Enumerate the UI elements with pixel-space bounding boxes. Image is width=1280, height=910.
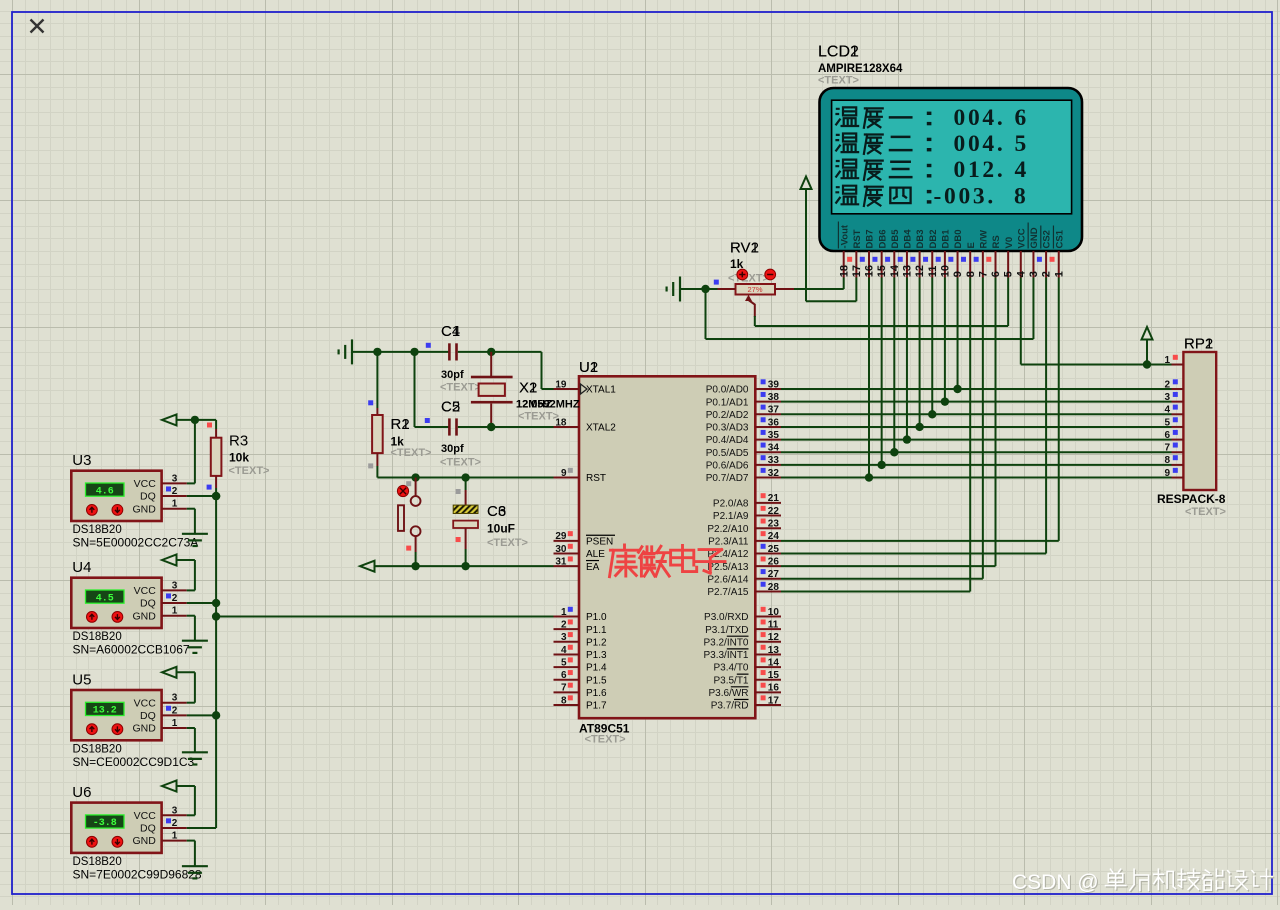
svg-text:1: 1 [561, 607, 567, 618]
capacitor C3/C6 10uF [453, 478, 478, 567]
svg-text:10k: 10k [229, 451, 249, 465]
U3 pin 2 DQ [140, 486, 187, 503]
RV1 wiper arrow [745, 295, 755, 317]
U1 pin 25 P2.4/A12 [707, 544, 781, 560]
svg-text:P0.3/AD3: P0.3/AD3 [706, 423, 749, 434]
svg-text:2: 2 [1164, 379, 1170, 390]
wire U5 GND to ground [187, 728, 195, 752]
svg-text:DB3: DB3 [915, 229, 926, 248]
svg-text:11: 11 [768, 619, 779, 630]
svg-text:37: 37 [768, 405, 780, 416]
svg-text:35: 35 [768, 430, 780, 441]
wire U6 VCC [176, 786, 195, 815]
svg-text:R2: R2 [391, 416, 410, 433]
U1 pin 16 P3.6/WR [708, 683, 781, 699]
U1 pin 38 P0.1/AD1 [706, 392, 781, 408]
CSDN watermark [1012, 869, 1274, 895]
svg-text:3: 3 [172, 693, 178, 704]
svg-text:P1.7: P1.7 [586, 701, 607, 712]
LCD pin label VCC [1016, 228, 1027, 248]
svg-text:7: 7 [977, 271, 989, 277]
svg-text:15: 15 [768, 670, 780, 681]
wire 1-wire bus [212, 492, 220, 828]
svg-text:AMPIRE128X64: AMPIRE128X64 [818, 63, 903, 75]
LCD screen text line1 [836, 105, 1026, 131]
RP1 pin 9 [1164, 468, 1183, 479]
svg-text:5: 5 [1003, 271, 1015, 277]
resistor R3 10k [211, 420, 222, 496]
svg-text:8: 8 [1014, 183, 1026, 209]
LCD pin 2 stub [1037, 251, 1053, 278]
svg-text:RS: RS [991, 235, 1002, 248]
svg-text:5: 5 [1015, 131, 1027, 157]
svg-text:P1.1: P1.1 [586, 625, 607, 636]
U3 up button [87, 505, 98, 516]
U1 XTAL1 clock symbol [581, 384, 588, 394]
U1 pin 6 P1.5 [554, 670, 608, 686]
U6 pin 2 DQ [140, 818, 187, 835]
svg-text:U2: U2 [579, 359, 598, 376]
svg-text:24: 24 [768, 531, 780, 542]
svg-text:13: 13 [768, 645, 780, 656]
svg-text:DB4: DB4 [903, 229, 914, 249]
wire U3 GND to ground [187, 509, 195, 534]
power arrow at RP1 [1142, 327, 1153, 340]
svg-text:X2: X2 [519, 380, 537, 397]
svg-text:-003.: -003. [934, 183, 996, 209]
wire LCD DB5 to P0.5 [890, 278, 898, 457]
wire LCD DB1 to P0.1 [941, 278, 949, 406]
svg-text:18: 18 [838, 265, 850, 277]
LCD pin 13 stub [898, 251, 914, 278]
U1 pin 19 XTAL1 [554, 379, 617, 395]
wire C4 to crystal top / XTAL1 [458, 348, 554, 389]
wire LCD RS to P2.5 [781, 278, 996, 567]
state square button bottom [406, 546, 411, 551]
U4 pin 2 DQ [140, 593, 187, 610]
wire LCD E to P2.7 [781, 278, 970, 592]
wire LCD GND net [706, 278, 1034, 340]
svg-text:<TEXT>: <TEXT> [440, 382, 481, 394]
wire P0.5 row [781, 451, 1172, 453]
RV1 increment button [737, 269, 748, 280]
svg-text:26: 26 [768, 556, 780, 567]
svg-text:2: 2 [172, 705, 178, 716]
state square R3 bottom [207, 485, 212, 490]
wire U3 VCC power rail [176, 416, 216, 484]
svg-text:GND: GND [132, 503, 156, 515]
LCD pin label E [966, 242, 977, 248]
svg-text:3: 3 [172, 473, 178, 484]
svg-text:SN=CE0002CC9D1C3: SN=CE0002CC9D1C3 [73, 755, 195, 769]
svg-text:VCC: VCC [134, 697, 157, 709]
U1 pin 2 P1.1 [554, 619, 608, 635]
wire U6 GND to ground [187, 841, 195, 867]
wire P0.2 row [781, 413, 1172, 415]
LCD pin 10 stub [936, 251, 952, 278]
ground below U6 [182, 865, 208, 867]
RV1 pot body [736, 284, 776, 295]
U6 pin 1 GND [132, 831, 186, 848]
svg-text:1: 1 [172, 831, 178, 842]
svg-text:6: 6 [990, 271, 1002, 277]
wire ground rail [353, 348, 449, 356]
svg-text:C6: C6 [487, 503, 506, 520]
U1 pin 29 PSEN [554, 531, 616, 547]
U1 pin 15 P3.5/T1 [713, 670, 781, 686]
svg-text:GND: GND [132, 723, 156, 735]
svg-text:3: 3 [1028, 271, 1040, 277]
svg-text:4.5: 4.5 [96, 593, 114, 604]
svg-text:004.: 004. [954, 131, 1006, 157]
svg-text:<TEXT>: <TEXT> [229, 465, 270, 477]
svg-text:U5: U5 [72, 672, 91, 689]
svg-text:RP2: RP2 [1184, 336, 1213, 353]
LCD pin label DB7 [865, 229, 876, 248]
wire LCD CS2 to P2.4 [781, 278, 1046, 554]
U4 pin 3 VCC [134, 580, 187, 597]
svg-text:28: 28 [768, 582, 780, 593]
wire U4 VCC [176, 560, 195, 590]
svg-text:<TEXT>: <TEXT> [585, 734, 626, 746]
RP1 pin 5 [1164, 417, 1183, 428]
U4 pin 1 GND [132, 606, 186, 623]
wire LCD VCC net to RP1 [1021, 278, 1172, 369]
svg-text:XTAL1: XTAL1 [586, 385, 616, 396]
svg-text:34: 34 [768, 443, 780, 454]
svg-text:19: 19 [555, 379, 567, 390]
U1 pin 30 ALE [554, 544, 606, 560]
svg-text:15: 15 [876, 265, 888, 277]
svg-text:GND: GND [132, 835, 156, 847]
svg-text:12: 12 [914, 265, 926, 277]
svg-text:9: 9 [561, 468, 567, 479]
wire LCD DB3 to P0.3 [915, 278, 923, 432]
svg-text:2: 2 [172, 593, 178, 604]
power arrow at LCD RST [801, 177, 812, 302]
LCD pin label DB4 [903, 229, 914, 249]
svg-text:2: 2 [172, 818, 178, 829]
svg-text:P3.2/INT0: P3.2/INT0 [703, 637, 748, 648]
svg-text:012.: 012. [954, 157, 1006, 183]
svg-text:5: 5 [1164, 417, 1170, 428]
svg-text:<TEXT>: <TEXT> [1185, 506, 1226, 518]
U5 pin 3 VCC [134, 693, 187, 710]
LCD pin 16 stub [860, 251, 876, 278]
U4 up button [87, 612, 98, 623]
svg-text:8: 8 [965, 271, 977, 277]
U1 pin 5 P1.4 [554, 657, 608, 673]
U1 pin 14 P3.4/T0 [713, 657, 781, 673]
RP1 label [1184, 336, 1213, 353]
LCD pin 14 stub [885, 251, 901, 278]
svg-text:DS18B20: DS18B20 [73, 524, 122, 536]
X1 label [519, 380, 537, 397]
svg-text:38: 38 [768, 392, 780, 403]
svg-text:14: 14 [889, 264, 901, 277]
wire U6 DQ to bus [187, 827, 216, 829]
svg-text:CS1: CS1 [1054, 229, 1065, 248]
X1 value 12MHZ [516, 399, 580, 411]
U1 pin 21 P2.0/A8 [713, 493, 781, 509]
U1 pin 36 P0.3/AD3 [706, 417, 781, 433]
U6 pin 3 VCC [134, 805, 187, 822]
svg-text:R/W: R/W [978, 230, 989, 249]
U1 pin 22 P2.1/A9 [713, 506, 781, 522]
svg-text:3: 3 [561, 632, 567, 643]
LCD pin 9 stub [948, 251, 964, 278]
svg-text:DQ: DQ [140, 491, 156, 503]
LCD pin 8 stub [961, 251, 977, 278]
svg-text:11: 11 [927, 266, 939, 278]
crystal X1/X2 [471, 352, 513, 427]
svg-text:21: 21 [768, 493, 780, 504]
LCD pin label V0 [1004, 237, 1015, 249]
svg-text:P2.1/A9: P2.1/A9 [713, 511, 749, 522]
U1 pin 13 P3.3/INT1 [703, 645, 781, 661]
C4 label [441, 323, 460, 340]
svg-text:V0: V0 [1004, 237, 1015, 249]
svg-text:P1.2: P1.2 [586, 637, 607, 648]
U1 pin 26 P2.5/A13 [707, 556, 781, 572]
U1 pin 7 P1.6 [554, 683, 608, 699]
ground at RV1 left [679, 277, 681, 302]
LCD pin label RS [991, 235, 1002, 248]
U1 pin 39 P0.0/AD0 [706, 379, 781, 395]
svg-text:C5: C5 [441, 399, 460, 416]
svg-text:RST: RST [852, 229, 863, 248]
RP1 pin 6 [1164, 430, 1183, 441]
U3 body DS18B20 [71, 471, 161, 521]
LCD screen text line4 [836, 183, 1026, 209]
U1 pin 10 P3.0/RXD [704, 607, 781, 623]
U1 body AT89C51 [579, 376, 755, 718]
U1 pin 34 P0.5/AD5 [706, 443, 781, 459]
svg-text:P3.3/INT1: P3.3/INT1 [703, 650, 748, 661]
svg-text:2: 2 [172, 486, 178, 497]
LCD pin label GND [1028, 223, 1040, 249]
svg-text:3: 3 [172, 805, 178, 816]
U6 up button [87, 836, 98, 847]
state square C2 [425, 418, 430, 423]
close X icon [31, 20, 44, 33]
ground at oscillator rail [351, 339, 353, 364]
svg-text:P0.5/AD5: P0.5/AD5 [706, 448, 749, 459]
svg-text:DS18B20: DS18B20 [73, 631, 122, 643]
wire U3 DQ to bus [187, 492, 221, 500]
svg-text:12: 12 [768, 632, 780, 643]
svg-text:DB5: DB5 [890, 229, 901, 249]
U1 pin 12 P3.2/INT0 [703, 632, 781, 648]
svg-text:2: 2 [561, 619, 567, 630]
wire R2 to RST row [377, 466, 553, 482]
LCD pin 7 stub [974, 251, 990, 278]
svg-text:VCC: VCC [1016, 228, 1027, 248]
svg-text:25: 25 [768, 544, 780, 555]
state square button top [406, 481, 411, 486]
LCD pin label DB0 [953, 229, 964, 248]
svg-text:16: 16 [864, 265, 876, 277]
RV1 decrement button [765, 269, 776, 280]
wire U4 DQ to bus [187, 599, 221, 607]
LCD pin 17 stub [847, 251, 863, 278]
state square RV1 pin1 [714, 280, 719, 285]
svg-text:14: 14 [768, 657, 780, 668]
LCD pin 4 stub [1015, 251, 1027, 278]
svg-text:DQ: DQ [140, 710, 156, 722]
R2 label [391, 416, 410, 433]
svg-text:P2.2/A10: P2.2/A10 [707, 524, 749, 535]
U3 pin 1 GND [132, 499, 186, 516]
svg-text:CSDN @: CSDN @ [1012, 871, 1099, 894]
U1 pin 31 EA [554, 556, 600, 572]
power arrow at U3 VCC [162, 414, 177, 425]
RP1 pin 3 [1164, 392, 1183, 403]
wire power to LCD RST [806, 278, 856, 302]
C3 label [487, 503, 506, 520]
state square R2 top [368, 400, 373, 405]
svg-text:27: 27 [768, 569, 780, 580]
svg-text:<TEXT>: <TEXT> [728, 273, 769, 285]
svg-text:<TEXT>: <TEXT> [518, 411, 559, 423]
svg-text:8: 8 [1164, 455, 1170, 466]
svg-text:16: 16 [768, 683, 780, 694]
svg-text:29: 29 [555, 531, 567, 542]
RV1 label [730, 240, 759, 257]
svg-text:ALE: ALE [586, 549, 605, 560]
wire P0.6 row [781, 464, 1172, 466]
wire LCD DB2 to P0.2 [928, 278, 936, 419]
wire P0.3 row [781, 426, 1172, 428]
svg-text:SN=A60002CCB1067: SN=A60002CCB1067 [73, 643, 190, 657]
svg-text:DS18B20: DS18B20 [73, 856, 122, 868]
U1 pin 37 P0.2/AD2 [706, 405, 781, 421]
svg-text:31: 31 [555, 556, 567, 567]
LCD pin label DB6 [877, 229, 888, 248]
U6 down button [112, 836, 123, 847]
U1 pin 24 P2.3/A11 [708, 531, 781, 547]
LCD pin 6 stub [986, 251, 1002, 278]
U5 pin 1 GND [132, 718, 186, 735]
svg-text:R3: R3 [229, 433, 248, 450]
wire LCD DB0 to P0.0 [953, 278, 961, 394]
svg-text:P0.0/AD0: P0.0/AD0 [706, 385, 749, 396]
svg-text:3: 3 [1164, 392, 1170, 403]
svg-text:39: 39 [768, 379, 780, 390]
svg-text:P2.6/A14: P2.6/A14 [707, 574, 749, 585]
svg-text:P3.7/RD: P3.7/RD [711, 701, 749, 712]
svg-text:DB0: DB0 [953, 229, 964, 248]
svg-text:P2.5/A13: P2.5/A13 [707, 562, 749, 573]
svg-text:XTAL2: XTAL2 [586, 423, 616, 434]
red watermark kang wei dian zi [610, 545, 726, 577]
LCD pin label CS2 [1041, 226, 1053, 249]
LCD pin label DB5 [890, 229, 901, 249]
wire C2 branch [415, 352, 450, 427]
svg-text:1: 1 [1164, 355, 1170, 366]
U1 pin 3 P1.2 [554, 632, 608, 648]
U4 body DS18B20 [71, 578, 161, 628]
svg-text:SN=5E00002CC2C73A: SN=5E00002CC2C73A [73, 536, 199, 550]
svg-text:9: 9 [952, 271, 964, 277]
U5 up button [87, 724, 98, 735]
svg-text:6: 6 [561, 670, 567, 681]
U5 pin 2 DQ [140, 705, 187, 722]
svg-text:-Vout: -Vout [839, 224, 850, 248]
ground below U4 [182, 640, 208, 642]
power arrow at EA [360, 561, 375, 572]
wire LCD CS1 to P2.3 [781, 278, 1059, 541]
ground below U3 [182, 533, 208, 535]
svg-text:CS2: CS2 [1042, 230, 1053, 248]
svg-text:DB6: DB6 [877, 229, 888, 248]
wire crystal bottom to XTAL2 [458, 423, 554, 431]
RP1 pin 4 [1164, 405, 1183, 416]
state square C3 bottom [456, 537, 461, 542]
wire P0.7 row [781, 477, 1172, 479]
svg-text:P0.2/AD2: P0.2/AD2 [706, 410, 749, 421]
wire LCD R/W to P2.6 [781, 278, 983, 579]
svg-text:P2.3/A11: P2.3/A11 [708, 536, 749, 547]
svg-text:4: 4 [561, 645, 567, 656]
RP1 pin 2 [1164, 379, 1183, 390]
U4 down button [112, 612, 123, 623]
svg-text:GND: GND [132, 610, 156, 622]
svg-text:4: 4 [1015, 270, 1027, 277]
svg-text:C4: C4 [441, 323, 460, 340]
svg-text:P3.0/RXD: P3.0/RXD [704, 612, 748, 623]
wire P0.0 row [781, 388, 1172, 390]
svg-text:DB7: DB7 [865, 229, 876, 248]
svg-text:P0.1/AD1: P0.1/AD1 [706, 397, 749, 408]
LCD pin label R/W [978, 230, 989, 249]
U1 pin 9 RST [554, 468, 607, 484]
svg-text:<TEXT>: <TEXT> [818, 75, 859, 87]
capacitor C2/C5 30pf [448, 418, 458, 435]
svg-text:32: 32 [768, 468, 780, 479]
LCD pin label CS1 [1053, 226, 1065, 249]
LCD pin label DB1 [941, 229, 952, 249]
svg-text:23: 23 [768, 519, 780, 530]
C2 label [441, 399, 460, 416]
svg-text:30pf: 30pf [441, 443, 464, 455]
LCD pin 3 stub [1028, 251, 1040, 278]
RP1 pin 7 [1164, 443, 1183, 454]
svg-text:2: 2 [1041, 271, 1053, 277]
svg-text:VCC: VCC [134, 478, 157, 490]
LCD2 body AMPIRE128X64 [820, 88, 1083, 251]
svg-text:P1.0: P1.0 [586, 612, 607, 623]
LCD pin 12 stub [910, 251, 926, 278]
U1 pin 8 P1.7 [554, 695, 608, 711]
svg-text:22: 22 [768, 506, 780, 517]
wire LCD DB6 to P0.6 [877, 278, 885, 470]
U5 down button [112, 724, 123, 735]
RP1 pin 1 [1164, 355, 1183, 366]
svg-text:P3.5/T1: P3.5/T1 [713, 675, 748, 686]
svg-text:DB1: DB1 [941, 229, 952, 249]
svg-text:P0.7/AD7: P0.7/AD7 [706, 473, 749, 484]
U6 body DS18B20 [71, 803, 161, 853]
U1 pin 18 XTAL2 [554, 417, 617, 433]
svg-text:33: 33 [768, 455, 780, 466]
state square C4 [426, 343, 431, 348]
wire P0.1 row [781, 401, 1172, 403]
svg-text:7: 7 [561, 683, 567, 694]
capacitor C1/C4 30pf [448, 343, 458, 360]
U1 pin 23 P2.2/A10 [707, 519, 781, 535]
U1 pin 17 P3.7/RD [711, 695, 781, 711]
